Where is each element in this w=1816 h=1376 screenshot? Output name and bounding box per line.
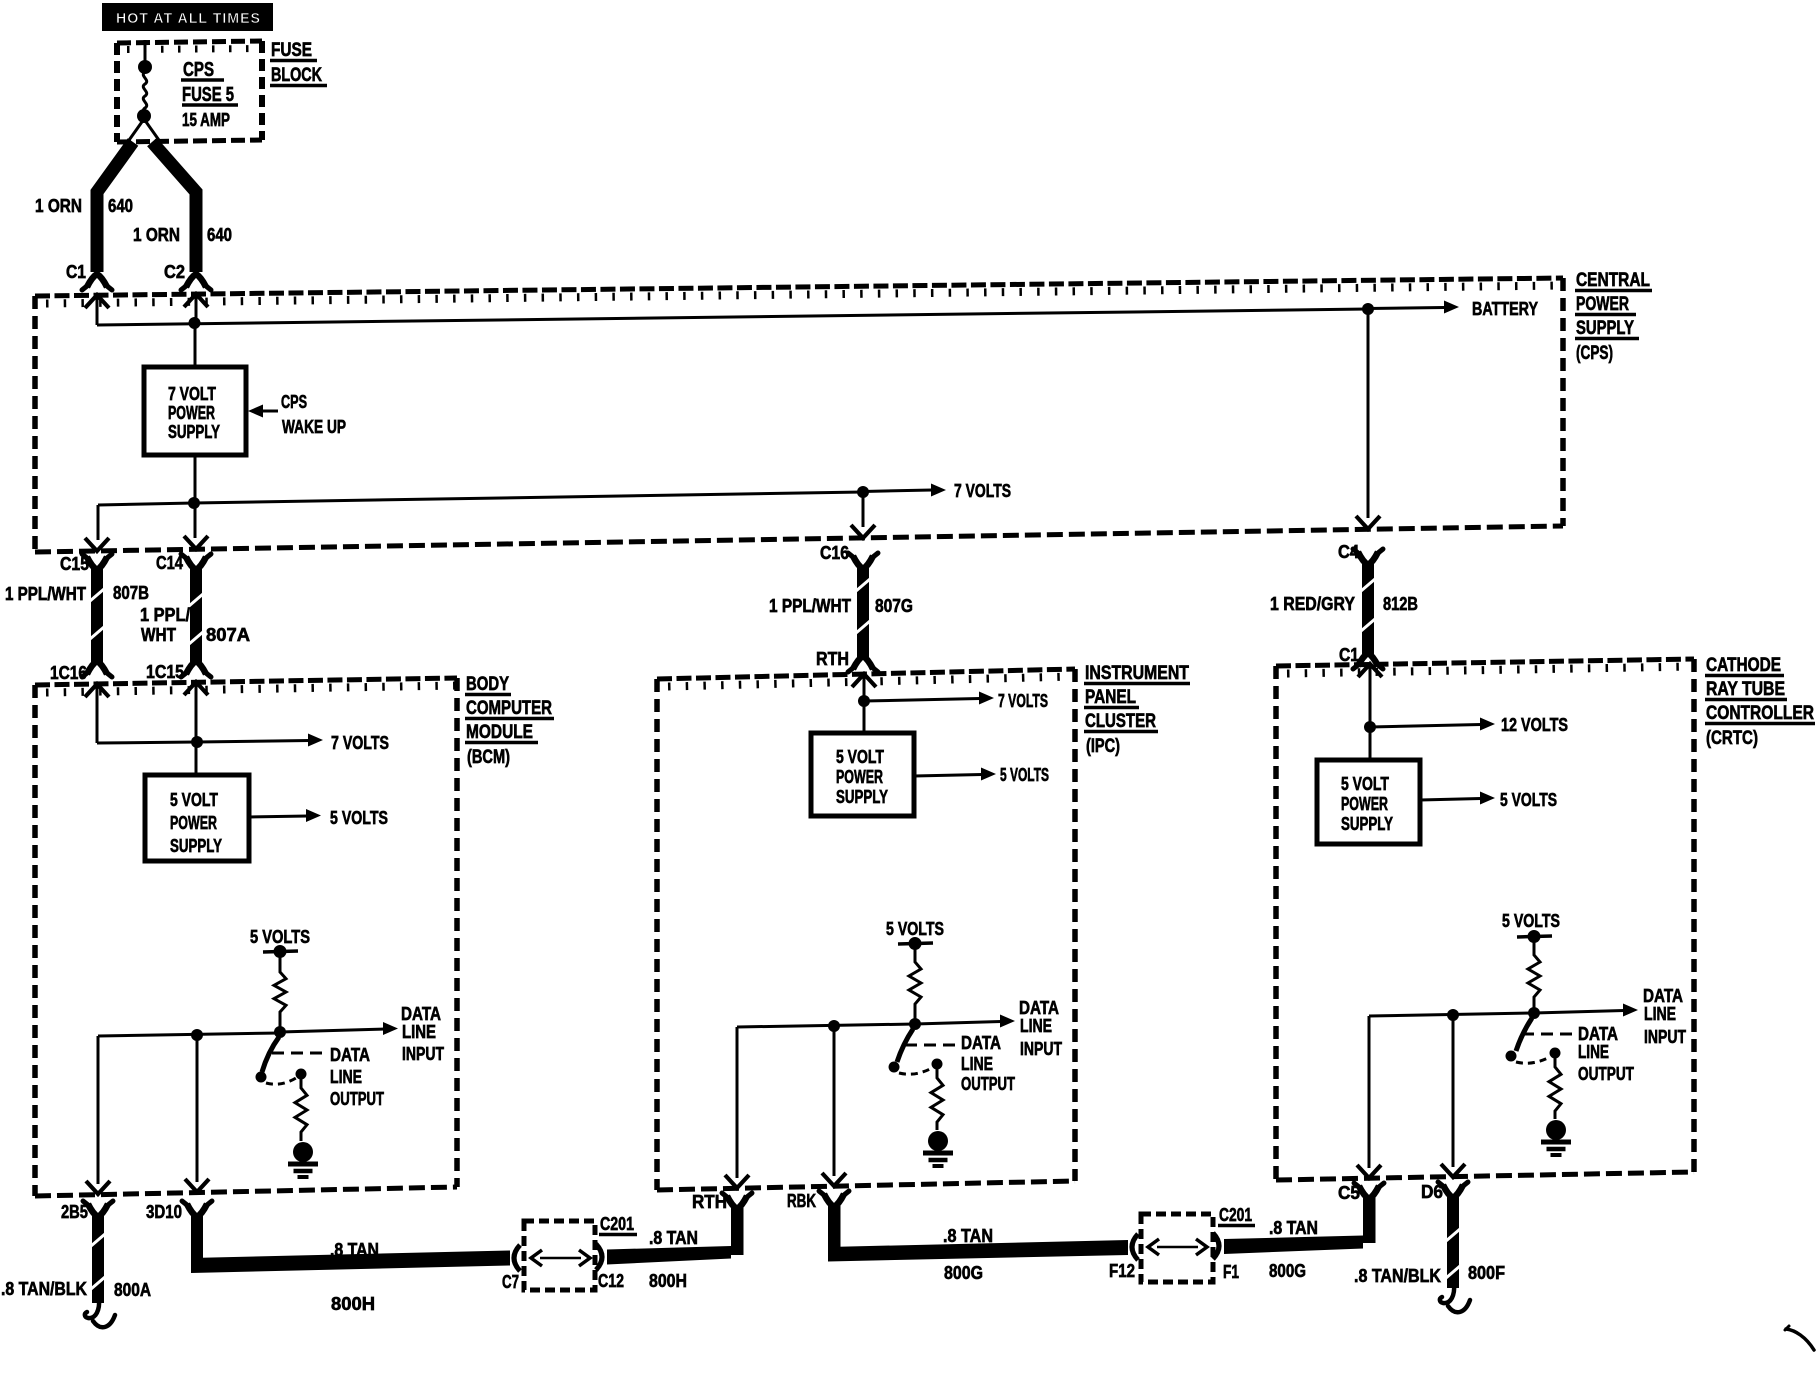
svg-text:800F: 800F — [1468, 1263, 1505, 1283]
terminal C14 exit arrow — [184, 536, 208, 549]
switch contact dot 2 (BCM) — [296, 1069, 307, 1080]
svg-text:5 VOLTS: 5 VOLTS — [1500, 790, 1557, 810]
svg-text:800A: 800A — [114, 1280, 151, 1300]
ground (BCM) — [293, 1142, 313, 1162]
junction dot 3D10 (BCM) — [191, 1029, 203, 1041]
wire 1C15 to power supply — [195, 685, 198, 776]
wire .8 TAN 800G left segment — [828, 1205, 841, 1255]
pigtail 2B5 wire end — [85, 1298, 99, 1318]
svg-text:POWER: POWER — [170, 813, 217, 833]
body computer module (BCM) box top border fringe — [46, 686, 457, 693]
terminal fork C5 wire top — [1359, 1186, 1379, 1199]
5 volt power supply box U4 (CRTC) — [1317, 760, 1420, 844]
cathode ray tube controller (CRTC) box right border — [1691, 659, 1697, 1172]
central power supply (CPS) box top border fringe — [46, 286, 1563, 304]
wire bus corner down to C15 — [97, 505, 100, 540]
svg-text:PANEL: PANEL — [1085, 687, 1136, 708]
svg-text:7 VOLTS: 7 VOLTS — [954, 481, 1011, 501]
junction dot RBK (IPC) — [828, 1020, 840, 1032]
svg-text:SUPPLY: SUPPLY — [836, 787, 888, 807]
svg-text:F1: F1 — [1223, 1262, 1239, 1282]
svg-text:BODY: BODY — [466, 674, 509, 695]
svg-text:640: 640 — [108, 196, 133, 216]
svg-text:INPUT: INPUT — [402, 1044, 444, 1064]
svg-text:5 VOLTS: 5 VOLTS — [330, 808, 388, 828]
pullup resistor R (BCM) — [274, 957, 286, 1032]
svg-text:1C15: 1C15 — [146, 662, 184, 682]
switch throw dashed arc (CRTC) — [1516, 1057, 1550, 1063]
switch contact dot 2 (CRTC) — [1550, 1048, 1561, 1059]
5 volts arrow (BCM) — [249, 816, 308, 817]
svg-text:C1: C1 — [1339, 645, 1359, 665]
CPS wake up arrow — [248, 405, 263, 418]
terminal 2B5 exit arrow — [86, 1181, 110, 1194]
terminal RBK exit arrow — [822, 1173, 846, 1186]
wire C14 drop — [194, 503, 197, 538]
svg-text:807A: 807A — [206, 625, 250, 645]
junction dot fuse bottom — [137, 109, 151, 123]
svg-text:C7: C7 — [502, 1272, 519, 1292]
svg-text:INPUT: INPUT — [1644, 1027, 1686, 1047]
12 volts arrow (CRTC) — [1370, 725, 1481, 728]
connector C201 box (BCM-IPC) — [524, 1221, 595, 1290]
svg-text:.8 TAN: .8 TAN — [649, 1228, 698, 1248]
wire 1 PPL/WHT 807G (C16 to RTH) — [853, 556, 873, 569]
terminal fork C1 wire bottom — [87, 274, 107, 287]
pullup resistor R (IPC) — [909, 949, 921, 1024]
svg-text:7 VOLT: 7 VOLT — [168, 384, 216, 404]
wire 1 PPL/WHT 807B (C15 to 1C16) — [87, 557, 107, 570]
scan artifact curl bottom right — [1786, 1329, 1814, 1350]
svg-text:RTH: RTH — [816, 649, 849, 669]
body computer module (BCM) box top border — [35, 678, 457, 685]
svg-text:3D10: 3D10 — [146, 1202, 182, 1222]
svg-text:12 VOLTS: 12 VOLTS — [1501, 715, 1568, 735]
svg-text:POWER: POWER — [168, 403, 215, 423]
fuse CPS FUSE 5 element — [143, 72, 147, 115]
svg-text:BLOCK: BLOCK — [271, 65, 322, 86]
output resistor R (IPC) — [931, 1069, 943, 1130]
central power supply (CPS) box top border — [35, 278, 1563, 296]
wire 1 PPL/WHT 807A (C14 to 1C15) — [186, 557, 206, 570]
instrument panel cluster (IPC) box top border — [657, 669, 1075, 679]
svg-text:C2: C2 — [164, 262, 185, 282]
svg-text:RTH: RTH — [692, 1192, 727, 1212]
5 volts arrow (CRTC) — [1420, 799, 1481, 801]
fuse block box left border — [114, 43, 120, 142]
wire 1 ORN 640 left (to C1) — [97, 142, 133, 272]
junction dot C2 on battery bus — [189, 317, 201, 329]
svg-text:RAY TUBE: RAY TUBE — [1706, 679, 1785, 700]
svg-text:C15: C15 — [60, 554, 89, 574]
svg-text:DATA: DATA — [961, 1033, 1001, 1053]
terminal C15 exit arrow — [85, 538, 109, 551]
terminal dot (CRTC pullup) — [1528, 930, 1541, 943]
junction dot battery / C4 — [1362, 303, 1374, 315]
junction dot BCM 7 volt — [191, 736, 203, 748]
connector C201 mating arrows (BCM-IPC) — [540, 1257, 581, 1260]
terminal bracket F1 — [1213, 1233, 1219, 1259]
svg-text:C12: C12 — [598, 1271, 624, 1291]
svg-text:LINE: LINE — [1578, 1042, 1609, 1062]
wire to RBK (IPC) — [833, 1026, 836, 1176]
terminal 1C15 entry arrow — [184, 682, 208, 695]
pullup resistor R (CRTC) — [1528, 942, 1540, 1013]
wire .8 TAN 800G right segment — [1224, 1236, 1363, 1255]
svg-text:5 VOLTS: 5 VOLTS — [886, 919, 944, 939]
svg-text:807B: 807B — [113, 583, 149, 603]
output resistor R (CRTC) — [1549, 1058, 1561, 1119]
svg-text:1 PPL/: 1 PPL/ — [140, 605, 190, 625]
output resistor R (BCM) — [295, 1079, 307, 1141]
fuse block box top border fringe — [127, 49, 262, 50]
svg-text:C16: C16 — [820, 543, 849, 563]
svg-text:C4: C4 — [1338, 542, 1359, 562]
svg-text:.8 TAN: .8 TAN — [1269, 1218, 1318, 1238]
svg-text:.8 TAN: .8 TAN — [330, 1240, 379, 1260]
ground (CRTC) — [1546, 1120, 1566, 1140]
svg-text:POWER: POWER — [1341, 794, 1388, 814]
svg-text:POWER: POWER — [836, 767, 883, 787]
svg-text:SUPPLY: SUPPLY — [168, 422, 220, 442]
svg-text:OUTPUT: OUTPUT — [1578, 1064, 1634, 1084]
svg-text:LINE: LINE — [330, 1067, 362, 1087]
7 volts arrow — [863, 490, 932, 492]
switch throw dashed arc (IPC) — [899, 1068, 932, 1074]
wire .8 TAN/BLK 800F — [1443, 1185, 1463, 1198]
pigtail D6 wire end — [1440, 1284, 1454, 1303]
svg-text:800H: 800H — [649, 1271, 687, 1291]
wire to 3D10 — [196, 1035, 199, 1182]
svg-text:807G: 807G — [875, 596, 913, 616]
svg-text:CPS: CPS — [281, 392, 307, 412]
svg-text:.8 TAN/BLK: .8 TAN/BLK — [1, 1279, 87, 1299]
wire C1 to power supply (CRTC) — [1369, 667, 1372, 761]
central power supply (CPS) box bottom border — [35, 526, 1563, 552]
svg-text:CATHODE: CATHODE — [1706, 655, 1781, 676]
svg-text:LINE: LINE — [1020, 1016, 1052, 1036]
svg-text:OUTPUT: OUTPUT — [330, 1089, 384, 1109]
instrument panel cluster (IPC) box left border — [654, 679, 660, 1190]
svg-text:(CRTC): (CRTC) — [1706, 728, 1758, 749]
cathode ray tube controller (CRTC) box top border — [1276, 659, 1694, 666]
wire 1 ORN 640 right (to C2) — [152, 142, 196, 272]
svg-text:INSTRUMENT: INSTRUMENT — [1085, 663, 1189, 684]
svg-text:.8 TAN/BLK: .8 TAN/BLK — [1354, 1266, 1441, 1286]
svg-text:POWER: POWER — [1576, 294, 1629, 315]
svg-text:1C16: 1C16 — [50, 663, 87, 683]
svg-text:5 VOLT: 5 VOLT — [1341, 774, 1389, 794]
svg-text:FUSE 5: FUSE 5 — [182, 84, 234, 106]
CRTC data net horizontal wire — [1369, 1013, 1534, 1016]
terminal fork RTH wire top — [727, 1196, 747, 1209]
svg-text:7 VOLTS: 7 VOLTS — [331, 733, 389, 753]
central power supply (CPS) box right border — [1560, 278, 1566, 526]
svg-text:LINE: LINE — [402, 1022, 436, 1042]
svg-text:COMPUTER: COMPUTER — [466, 698, 552, 719]
svg-text:LINE: LINE — [1644, 1004, 1676, 1024]
svg-text:F12: F12 — [1109, 1261, 1135, 1281]
terminal C2 entry arrow — [184, 294, 208, 307]
switch arm (BCM) — [262, 1037, 279, 1072]
wire to C5 (CRTC) — [1368, 1016, 1371, 1168]
svg-text:LINE: LINE — [961, 1054, 993, 1074]
svg-text:5 VOLTS: 5 VOLTS — [250, 927, 310, 947]
svg-text:WHT: WHT — [141, 625, 176, 645]
terminal fork C2 wire bottom — [186, 274, 206, 287]
BCM data net horizontal wire — [98, 1033, 280, 1036]
wire to 2B5 — [97, 1036, 100, 1184]
svg-text:2B5: 2B5 — [61, 1202, 88, 1222]
wire C1 to battery bus — [96, 298, 99, 325]
svg-text:C201: C201 — [1219, 1205, 1252, 1225]
wire to D6 (CRTC) — [1452, 1015, 1455, 1167]
central power supply (CPS) box left border — [32, 296, 38, 552]
svg-text:(IPC): (IPC) — [1086, 736, 1120, 757]
svg-text:CPS: CPS — [183, 59, 214, 81]
wire RTH to power supply (IPC) — [863, 677, 866, 734]
wire C2 drop — [195, 297, 198, 323]
junction dot fuse top — [138, 60, 152, 74]
body computer module (BCM) box right border — [454, 678, 460, 1187]
svg-text:CLUSTER: CLUSTER — [1085, 711, 1156, 732]
wire fuse output split V — [127, 119, 161, 143]
svg-text:C14: C14 — [156, 553, 183, 573]
body computer module (BCM) box left border — [32, 685, 38, 1196]
wire .8 TAN 800H right segment — [607, 1246, 731, 1265]
7 volt power supply box U1 — [144, 367, 246, 455]
junction dot IPC 7 volt — [858, 695, 870, 707]
svg-text:1 PPL/WHT: 1 PPL/WHT — [5, 584, 86, 604]
wire battery to C4 drop — [1367, 309, 1370, 518]
svg-text:1 ORN: 1 ORN — [35, 196, 82, 216]
terminal C1 entry arrow — [85, 295, 109, 308]
5 volts source terminal bar (CRTC) — [1517, 936, 1552, 937]
svg-text:15 AMP: 15 AMP — [182, 110, 230, 130]
svg-text:CENTRAL: CENTRAL — [1576, 270, 1650, 291]
svg-text:DATA: DATA — [1019, 998, 1059, 1018]
cathode ray tube controller (CRTC) box left border — [1273, 666, 1279, 1180]
ground (IPC) — [928, 1131, 948, 1151]
svg-text:FUSE: FUSE — [271, 40, 312, 61]
svg-text:DATA: DATA — [1643, 986, 1683, 1006]
switch contact dot 1 (IPC) — [889, 1062, 900, 1073]
wire to RTH (IPC) — [736, 1027, 739, 1178]
terminal fork RBK wire top — [824, 1194, 844, 1207]
svg-text:1 PPL/WHT: 1 PPL/WHT — [769, 596, 851, 616]
svg-text:800G: 800G — [944, 1263, 983, 1283]
terminal bracket C7 — [514, 1245, 520, 1271]
7 volts arrow (BCM) — [197, 741, 310, 743]
svg-text:812B: 812B — [1383, 594, 1418, 614]
svg-text:OUTPUT: OUTPUT — [961, 1074, 1015, 1094]
svg-text:5 VOLT: 5 VOLT — [170, 790, 218, 810]
data line output dashed leader (BCM) — [272, 1052, 328, 1055]
wire C16 drop — [862, 492, 865, 527]
terminal D6 exit arrow — [1441, 1164, 1465, 1177]
instrument panel cluster (IPC) box right border — [1072, 669, 1078, 1181]
svg-text:BATTERY: BATTERY — [1472, 299, 1538, 319]
terminal C1 entry arrow (CRTC) — [1358, 664, 1382, 677]
svg-text:5 VOLTS: 5 VOLTS — [1502, 911, 1560, 931]
svg-text:1 RED/GRY: 1 RED/GRY — [1270, 594, 1355, 614]
5 volts source terminal bar (BCM) — [263, 951, 298, 952]
wire .8 TAN 800H left segment — [187, 1204, 207, 1217]
svg-text:(BCM): (BCM) — [467, 747, 510, 768]
terminal RTH exit arrow — [725, 1175, 749, 1188]
terminal dot (IPC pullup) — [909, 937, 922, 950]
body computer module (BCM) box bottom border — [35, 1187, 457, 1196]
svg-text:C5: C5 — [1338, 1183, 1360, 1203]
5 volts source terminal bar (IPC) — [898, 943, 933, 944]
svg-text:RBK: RBK — [787, 1191, 816, 1211]
switch contact dot 2 (IPC) — [932, 1059, 943, 1070]
data line input arrow (BCM) — [280, 1029, 385, 1032]
terminal bracket C12 — [596, 1244, 602, 1270]
junction dot CRTC 12 volt — [1364, 721, 1376, 733]
terminal 3D10 exit arrow — [185, 1179, 209, 1192]
7 volts arrow (IPC) — [864, 699, 980, 702]
7 volt bus left segment — [98, 503, 194, 505]
cathode ray tube controller (CRTC) box top border fringe — [1287, 667, 1694, 674]
switch contact dot 1 (BCM) — [256, 1072, 267, 1083]
fuse block box top border — [117, 41, 262, 43]
svg-text:800G: 800G — [1269, 1261, 1306, 1281]
svg-text:7 VOLTS: 7 VOLTS — [998, 691, 1048, 711]
terminal C16 exit arrow — [851, 525, 875, 538]
battery bus wire — [97, 309, 1368, 325]
svg-text:HOT AT ALL TIMES: HOT AT ALL TIMES — [116, 10, 261, 27]
battery arrow — [1368, 308, 1444, 309]
instrument panel cluster (IPC) box top border fringe — [668, 677, 1075, 687]
switch throw dashed arc (BCM) — [266, 1078, 296, 1084]
svg-text:C1: C1 — [66, 262, 86, 282]
wire C2 bus to 7 volt power supply — [194, 323, 197, 368]
svg-text:.8 TAN: .8 TAN — [943, 1226, 993, 1246]
5 volts arrow (IPC) — [914, 775, 982, 777]
terminal C5 exit arrow — [1357, 1165, 1381, 1178]
svg-text:CONTROLLER: CONTROLLER — [1706, 703, 1814, 724]
data line input arrow (CRTC) — [1534, 1011, 1624, 1014]
terminal RTH entry arrow (IPC) — [852, 674, 876, 687]
wire 1C16 to 7 volt node — [96, 687, 99, 743]
junction dot data line (IPC) — [909, 1018, 921, 1030]
svg-text:640: 640 — [207, 225, 232, 245]
svg-text:5 VOLT: 5 VOLT — [836, 747, 884, 767]
data line output dashed leader (CRTC) — [1522, 1033, 1576, 1036]
terminal C4 exit arrow — [1356, 516, 1380, 529]
svg-text:1 ORN: 1 ORN — [133, 225, 180, 245]
wire .8 TAN/BLK 800A — [88, 1204, 108, 1217]
svg-text:DATA: DATA — [330, 1045, 370, 1065]
connector C201 box (IPC-CRTC) — [1141, 1214, 1213, 1282]
junction dot C16 tap — [857, 486, 869, 498]
svg-text:DATA: DATA — [401, 1004, 441, 1024]
junction dot data line (CRTC) — [1528, 1007, 1540, 1019]
svg-text:SUPPLY: SUPPLY — [1576, 318, 1634, 339]
terminal 1C16 entry arrow — [85, 684, 109, 697]
wire fuse feed from hot bus — [144, 40, 147, 63]
junction dot data line (BCM) — [274, 1026, 286, 1038]
terminal dot (BCM pullup) — [274, 945, 287, 958]
junction dot D6 (CRTC) — [1447, 1009, 1459, 1021]
cathode ray tube controller (CRTC) box bottom border — [1276, 1172, 1694, 1180]
IPC data net horizontal wire — [737, 1024, 915, 1027]
terminal bracket F12 — [1132, 1234, 1138, 1260]
switch contact dot 1 (CRTC) — [1506, 1051, 1517, 1062]
junction dot 7 volt bus — [188, 497, 200, 509]
fuse block box bottom border — [117, 140, 262, 142]
fuse block box right border — [259, 41, 265, 140]
svg-text:SUPPLY: SUPPLY — [170, 836, 222, 856]
5 volt power supply box U2 (BCM) — [145, 775, 249, 861]
svg-text:SUPPLY: SUPPLY — [1341, 814, 1393, 834]
svg-text:5 VOLTS: 5 VOLTS — [1000, 765, 1049, 785]
wire 1 RED/GRY 812B (C4 to C1) — [1358, 552, 1378, 565]
svg-text:DATA: DATA — [1578, 1024, 1618, 1044]
switch arm (CRTC) — [1516, 1018, 1532, 1051]
svg-text:(CPS): (CPS) — [1576, 343, 1613, 364]
5 volt power supply box U3 (IPC) — [811, 733, 914, 816]
7 volt bus right segment — [194, 492, 863, 503]
svg-text:WAKE UP: WAKE UP — [282, 417, 346, 437]
instrument panel cluster (IPC) box bottom border — [657, 1181, 1075, 1190]
svg-text:C201: C201 — [600, 1214, 634, 1234]
svg-text:800H: 800H — [331, 1294, 375, 1314]
data line output dashed leader (IPC) — [905, 1044, 959, 1047]
connector C201 mating arrows (IPC-CRTC) — [1157, 1246, 1198, 1249]
wire power supply output — [194, 455, 197, 503]
label HOT AT ALL TIMES — [102, 3, 273, 31]
svg-text:MODULE: MODULE — [466, 722, 533, 743]
svg-text:INPUT: INPUT — [1020, 1039, 1062, 1059]
switch arm (IPC) — [897, 1029, 913, 1062]
data line input arrow (IPC) — [915, 1022, 1001, 1025]
